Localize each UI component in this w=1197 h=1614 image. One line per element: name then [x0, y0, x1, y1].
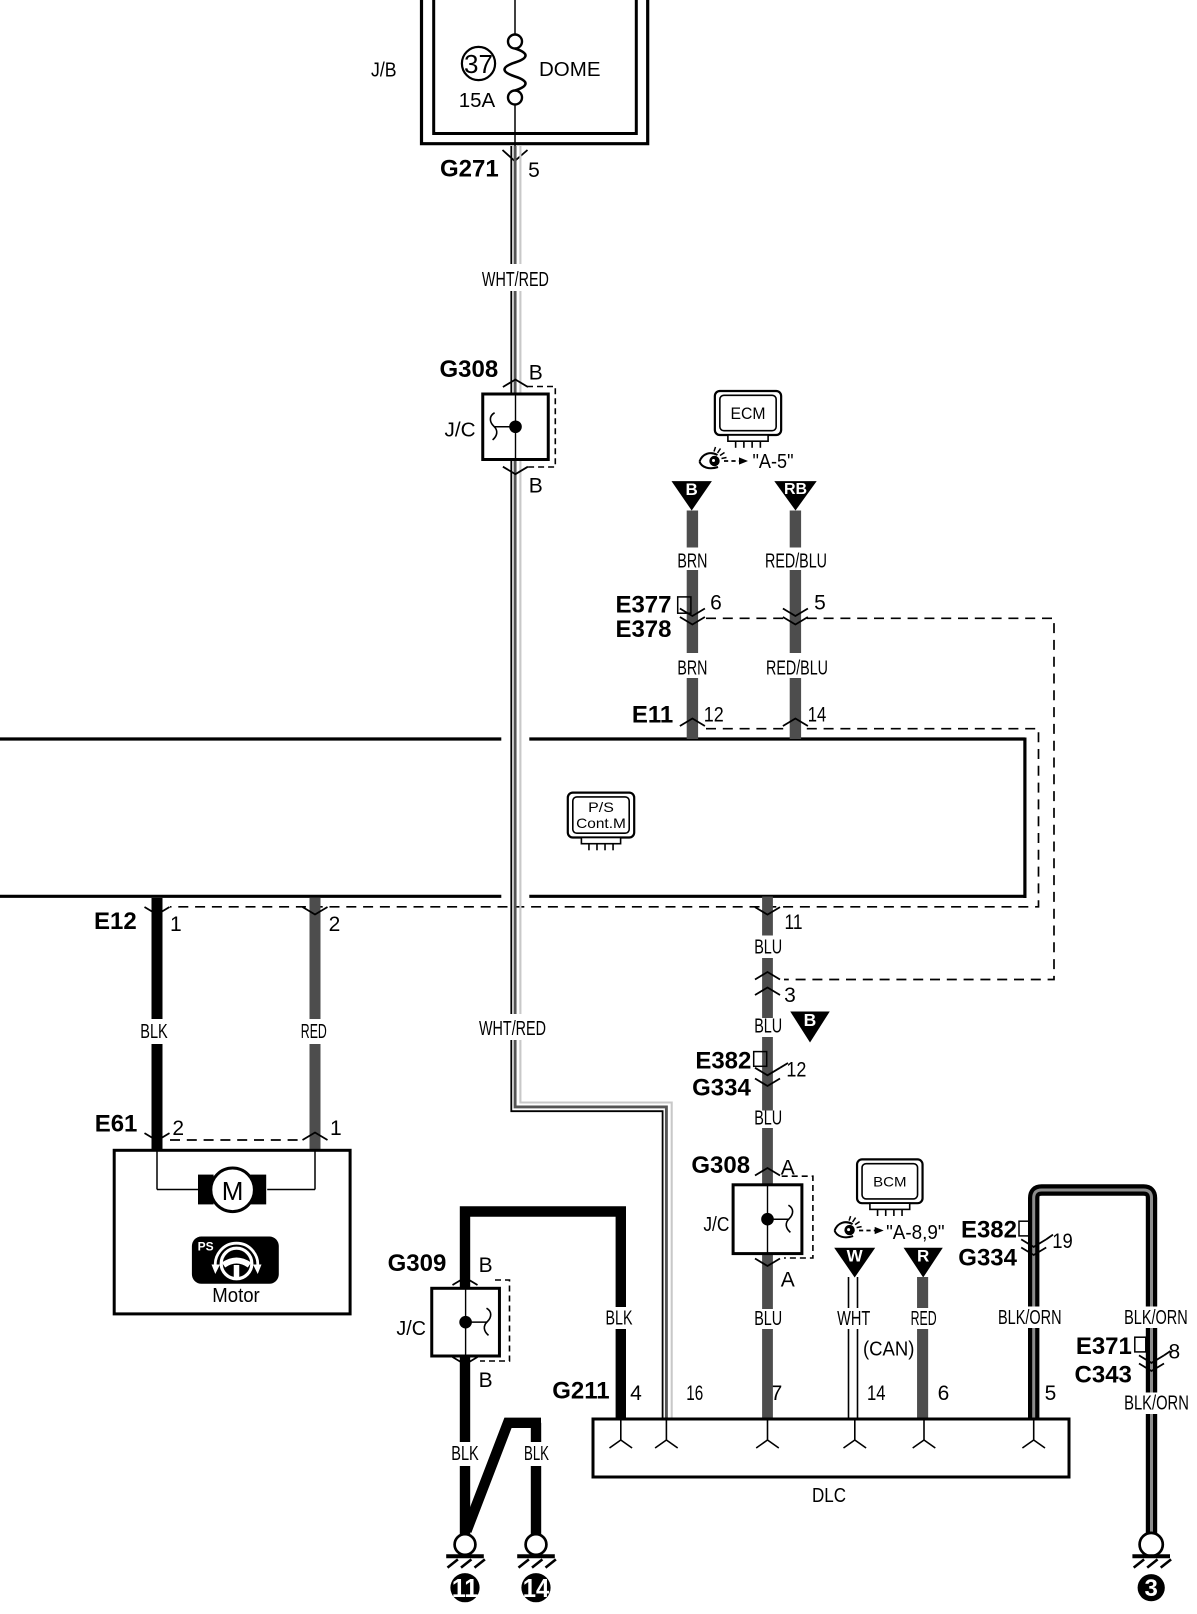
svg-text:RED: RED — [911, 1308, 937, 1330]
svg-text:2: 2 — [172, 1117, 184, 1140]
svg-text:RED/BLU: RED/BLU — [765, 551, 827, 573]
svg-text:RB: RB — [784, 481, 807, 498]
svg-text:5: 5 — [814, 592, 826, 615]
svg-text:2: 2 — [329, 913, 341, 936]
svg-text:E382: E382 — [961, 1216, 1017, 1243]
svg-text:G308: G308 — [691, 1152, 750, 1179]
svg-text:WHT: WHT — [837, 1308, 870, 1330]
svg-text:G271: G271 — [440, 156, 499, 183]
svg-text:14: 14 — [867, 1382, 886, 1405]
svg-text:12: 12 — [786, 1058, 806, 1081]
svg-text:E377: E377 — [615, 592, 671, 619]
svg-text:G309: G309 — [388, 1250, 447, 1277]
svg-text:19: 19 — [1052, 1230, 1073, 1253]
svg-text:R: R — [917, 1247, 929, 1266]
svg-text:BLK/ORN: BLK/ORN — [1124, 1393, 1189, 1415]
svg-text:W: W — [847, 1247, 864, 1266]
svg-text:(CAN): (CAN) — [863, 1339, 915, 1361]
svg-text:3: 3 — [784, 984, 796, 1007]
svg-text:DOME: DOME — [539, 58, 601, 81]
svg-text:B: B — [529, 362, 543, 385]
svg-text:E378: E378 — [615, 616, 671, 643]
svg-text:G334: G334 — [692, 1075, 751, 1102]
svg-text:RED: RED — [301, 1021, 327, 1043]
svg-text:C343: C343 — [1075, 1361, 1132, 1388]
svg-text:G308: G308 — [440, 356, 499, 383]
svg-text:BLU: BLU — [754, 1308, 782, 1330]
svg-text:BLU: BLU — [754, 1107, 782, 1129]
svg-text:5: 5 — [1045, 1382, 1057, 1405]
svg-text:Cont.M: Cont.M — [576, 815, 626, 831]
svg-text:5: 5 — [528, 159, 540, 182]
svg-text:1: 1 — [330, 1117, 342, 1140]
svg-text:A: A — [781, 1157, 795, 1180]
svg-text:G211: G211 — [552, 1378, 609, 1405]
svg-text:11: 11 — [785, 911, 803, 934]
svg-text:J/C: J/C — [445, 420, 476, 442]
svg-text:B: B — [529, 475, 543, 498]
svg-text:E12: E12 — [94, 908, 137, 935]
svg-text:BRN: BRN — [677, 658, 707, 680]
svg-text:P/S: P/S — [588, 799, 614, 815]
svg-text:B: B — [804, 1010, 817, 1030]
svg-text:B: B — [686, 480, 698, 499]
svg-text:11: 11 — [452, 1573, 479, 1603]
svg-text:BRN: BRN — [677, 551, 707, 573]
svg-text:"A-8,9": "A-8,9" — [886, 1222, 945, 1244]
svg-text:J/B: J/B — [371, 60, 397, 82]
svg-text:6: 6 — [710, 592, 722, 615]
svg-text:A: A — [781, 1268, 795, 1291]
svg-text:PS: PS — [198, 1240, 214, 1254]
svg-text:Motor: Motor — [212, 1285, 260, 1307]
svg-text:BLK: BLK — [140, 1021, 168, 1043]
svg-text:E11: E11 — [632, 702, 673, 729]
svg-text:3: 3 — [1145, 1575, 1158, 1602]
svg-text:4: 4 — [630, 1382, 642, 1405]
svg-text:BLU: BLU — [754, 937, 782, 959]
svg-text:B: B — [479, 1369, 493, 1392]
svg-text:J/C: J/C — [703, 1214, 729, 1236]
svg-text:8: 8 — [1168, 1340, 1180, 1363]
svg-text:WHT/RED: WHT/RED — [479, 1018, 546, 1040]
svg-text:BLK/ORN: BLK/ORN — [998, 1307, 1062, 1329]
svg-text:14: 14 — [808, 704, 827, 727]
svg-text:BLU: BLU — [754, 1015, 782, 1037]
svg-text:J/C: J/C — [396, 1318, 426, 1340]
svg-text:E61: E61 — [95, 1110, 138, 1137]
svg-text:6: 6 — [938, 1382, 950, 1405]
svg-text:16: 16 — [686, 1382, 703, 1405]
svg-text:RED/BLU: RED/BLU — [766, 658, 828, 680]
svg-text:14: 14 — [523, 1573, 550, 1603]
svg-text:M: M — [222, 1176, 244, 1206]
svg-text:BLK: BLK — [606, 1307, 633, 1329]
svg-text:DLC: DLC — [812, 1485, 846, 1507]
svg-text:BLK/ORN: BLK/ORN — [1124, 1307, 1188, 1329]
svg-text:BLK: BLK — [451, 1443, 479, 1465]
svg-text:12: 12 — [704, 704, 724, 727]
svg-text:E371: E371 — [1076, 1333, 1132, 1360]
svg-text:E382: E382 — [695, 1048, 751, 1075]
svg-text:BCM: BCM — [873, 1173, 906, 1189]
svg-text:G334: G334 — [958, 1244, 1017, 1271]
svg-text:15A: 15A — [459, 89, 496, 112]
svg-text:"A-5": "A-5" — [753, 451, 794, 473]
svg-text:B: B — [479, 1254, 493, 1277]
svg-text:BLK: BLK — [524, 1443, 549, 1465]
svg-text:37: 37 — [464, 49, 493, 79]
svg-text:ECM: ECM — [731, 404, 766, 423]
svg-text:WHT/RED: WHT/RED — [482, 269, 549, 291]
svg-text:1: 1 — [170, 913, 182, 936]
